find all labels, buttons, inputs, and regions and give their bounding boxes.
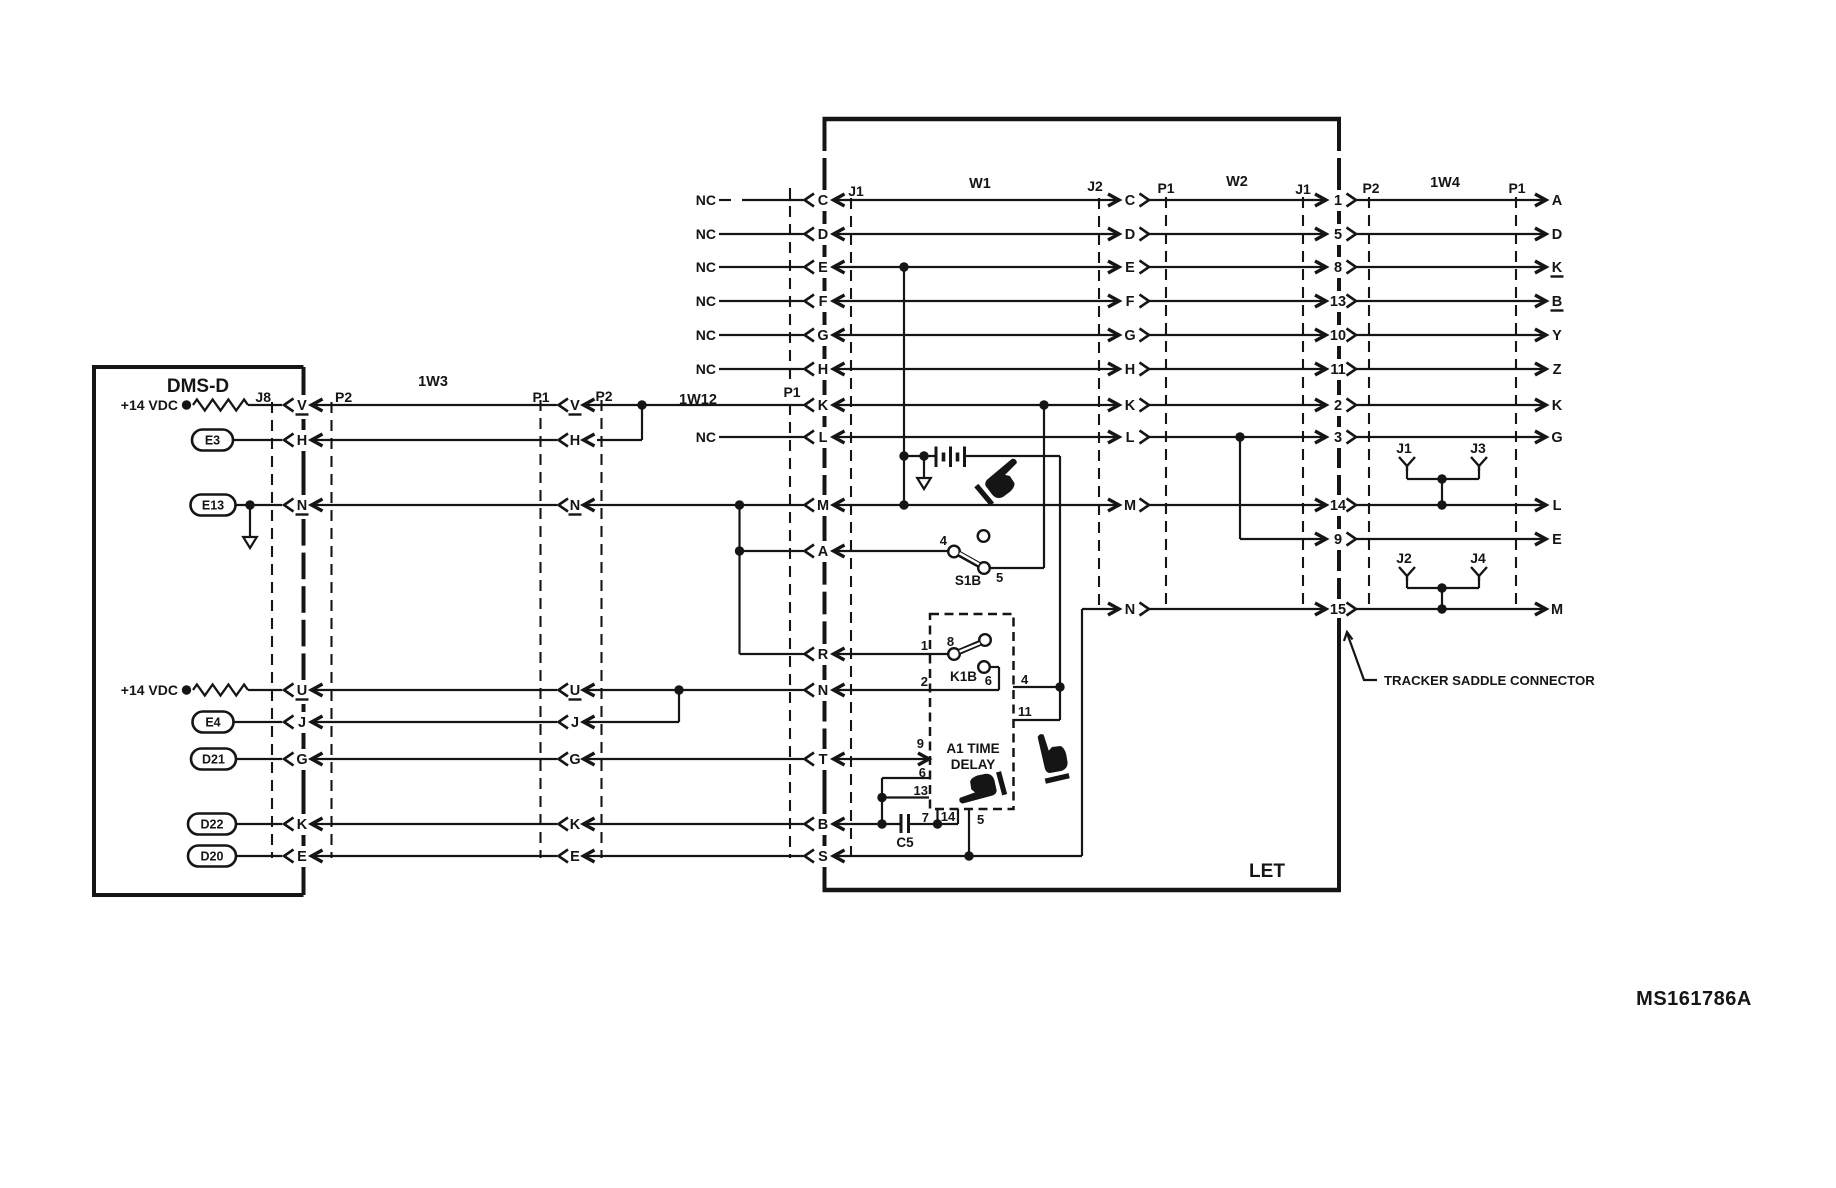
node K (P1/P2 pin)	[559, 817, 595, 833]
svg-text:E: E	[1552, 532, 1562, 548]
node D (1W4 P1 end)	[1552, 227, 1562, 243]
wire pin 11 loop	[1013, 687, 1060, 720]
svg-text:+14 VDC: +14 VDC	[121, 682, 178, 698]
NC stub into LET pin G	[696, 327, 804, 343]
LET unit enclosure box	[823, 119, 1342, 890]
svg-text:M: M	[1124, 498, 1136, 514]
svg-text:13: 13	[1330, 294, 1346, 310]
NC stub into LET pin D	[696, 226, 804, 242]
svg-text:U: U	[570, 683, 580, 699]
terminal E13	[191, 495, 236, 516]
svg-text:+14 VDC: +14 VDC	[121, 397, 178, 413]
terminal D20	[188, 846, 236, 867]
svg-text:W1: W1	[969, 176, 991, 192]
svg-text:8: 8	[1334, 260, 1342, 276]
svg-text:11: 11	[1330, 362, 1345, 378]
svg-text:B: B	[1552, 294, 1562, 310]
wire 1W4 row 10	[1356, 329, 1546, 341]
wire S row to riser	[834, 851, 1083, 860]
node H (J2/P1 pin)	[1125, 362, 1149, 378]
connector P1 dashed line (1W3 right)	[532, 389, 549, 858]
NC stub into LET pin L	[696, 429, 804, 445]
svg-text:J2: J2	[1396, 550, 1412, 566]
svg-text:L: L	[1553, 498, 1562, 514]
wire 1W4 row 5	[1356, 228, 1546, 240]
svg-text:N: N	[297, 498, 307, 514]
wire W1 row C	[834, 194, 1120, 206]
svg-text:E: E	[297, 849, 307, 865]
wire R row to K1B pivot	[834, 653, 949, 655]
node D (LET J1 pin)	[805, 227, 845, 243]
wire 1W3 row H	[312, 439, 558, 441]
antenna J2	[1396, 550, 1415, 581]
svg-text:7: 7	[922, 810, 929, 825]
node E (1W4 P1 end)	[1552, 532, 1562, 548]
svg-text:R: R	[818, 647, 829, 663]
svg-text:D: D	[1552, 227, 1562, 243]
A1 pin 7 lead	[922, 809, 938, 825]
terminal D21	[191, 749, 236, 770]
node H (P1/P2 pin)	[559, 433, 595, 449]
node 13 (J1/P2 tracker saddle pin)	[1330, 294, 1356, 310]
wire row U to LET N pin	[584, 685, 804, 694]
node E (J2/P1 pin)	[1125, 260, 1149, 276]
svg-text:1W4: 1W4	[1430, 175, 1460, 191]
connector P2 dashed line (1W12 left)	[595, 388, 612, 858]
wire A row stub	[740, 550, 804, 552]
wire row G to LET T pin	[584, 758, 804, 760]
node N (J2/P1 pin, row 15)	[1125, 602, 1149, 618]
svg-text:9: 9	[917, 736, 924, 751]
node B (LET J1 pin)	[805, 817, 845, 833]
node 1 (J1/P2 tracker saddle pin)	[1334, 193, 1356, 209]
wire 1W4 row 13	[1356, 295, 1546, 307]
wire E4 to J pin	[234, 721, 283, 723]
node A (LET J1 pin)	[805, 544, 845, 560]
wire 1W4 row 9	[1356, 533, 1546, 545]
A1 pin 14 lead	[941, 809, 958, 824]
node V (DMS J8 pin)	[284, 398, 323, 415]
node 5 (J1/P2 tracker saddle pin)	[1334, 227, 1356, 243]
node K (1W4 P1 end)	[1552, 398, 1563, 414]
junction V/H branch	[637, 400, 646, 409]
wire V pin stub	[248, 404, 282, 406]
node 14 (tracker saddle pin)	[1330, 498, 1356, 514]
node U (P1/P2 pin)	[559, 683, 595, 700]
wire W1 row H	[834, 363, 1120, 375]
svg-text:13: 13	[914, 783, 928, 798]
wire C5 to A1 pins 7/14	[909, 819, 959, 828]
terminal E3	[192, 430, 233, 451]
svg-text:P2: P2	[595, 388, 612, 404]
svg-text:5: 5	[1334, 227, 1342, 243]
svg-text:J2: J2	[1087, 178, 1103, 194]
node E (LET J1 pin)	[805, 260, 845, 276]
K1B pin 6 contact	[978, 661, 999, 690]
wire branch J to U row	[584, 690, 680, 722]
junction L row branch	[1235, 432, 1244, 441]
wire pin 4 stub	[1013, 672, 1060, 687]
svg-text:H: H	[570, 433, 580, 449]
svg-text:H: H	[1125, 362, 1135, 378]
node E (P1/P2 pin)	[559, 849, 595, 865]
node K (1W4 P1 end)	[1551, 260, 1564, 277]
node Y (1W4 P1 end)	[1552, 328, 1562, 344]
svg-text:J8: J8	[255, 389, 271, 405]
connector P2 dashed line (1W4 left)	[1362, 180, 1379, 609]
svg-text:H: H	[297, 433, 307, 449]
node G (DMS J8 pin)	[284, 752, 323, 768]
wire E3 to H pin	[233, 439, 282, 441]
node C (J2/P1 pin)	[1125, 193, 1149, 209]
connector J1 dashed line (LET left)	[848, 183, 864, 858]
svg-text:L: L	[819, 430, 828, 446]
svg-text:4: 4	[1021, 672, 1029, 687]
svg-text:3: 3	[1334, 430, 1342, 446]
wire W1 row E	[834, 261, 1120, 273]
svg-text:5: 5	[996, 570, 1003, 585]
wire W1 row F	[834, 295, 1120, 307]
wire 1W3 row K	[312, 823, 558, 825]
node 3 (J1/P2 tracker saddle pin)	[1334, 430, 1356, 446]
antenna J3	[1470, 440, 1487, 471]
relay contact K1B	[921, 634, 991, 689]
wire D21 to G pin	[236, 758, 282, 760]
ground (battery)	[917, 456, 931, 489]
svg-text:A: A	[1552, 193, 1563, 209]
node 8 (J1/P2 tracker saddle pin)	[1334, 260, 1356, 276]
wire W2 row C	[1149, 194, 1326, 206]
wire 1W4 row 15	[1356, 603, 1546, 615]
svg-text:1: 1	[1334, 193, 1342, 209]
wire J2/J4 tie bar	[1407, 581, 1479, 609]
wire row N to LET M pin	[584, 500, 804, 509]
svg-text:LET: LET	[1249, 861, 1285, 882]
svg-text:J4: J4	[1470, 550, 1486, 566]
svg-text:K1B: K1B	[950, 669, 977, 684]
svg-text:E: E	[570, 849, 580, 865]
wire branch M-A-R	[735, 505, 744, 654]
svg-text:A: A	[818, 544, 829, 560]
wire W2 row D	[1149, 228, 1326, 240]
svg-text:NC: NC	[696, 327, 716, 343]
terminal D22	[188, 814, 236, 835]
svg-text:MS161786A: MS161786A	[1636, 988, 1752, 1010]
NC stub into LET pin F	[696, 293, 804, 309]
svg-text:5: 5	[977, 812, 984, 827]
svg-text:1: 1	[921, 638, 928, 653]
svg-text:D22: D22	[201, 818, 224, 832]
svg-text:B: B	[818, 817, 828, 833]
wire S riser to N row	[1082, 603, 1119, 856]
svg-text:T: T	[819, 752, 828, 768]
wire W2 row H	[1149, 363, 1326, 375]
svg-text:D20: D20	[201, 850, 224, 864]
svg-text:V: V	[570, 398, 580, 414]
node K (LET J1 pin)	[805, 398, 845, 414]
wire 1W3 row N	[312, 504, 558, 506]
A1 pin 13 lead	[882, 783, 929, 798]
svg-text:14: 14	[1330, 498, 1346, 514]
wire W2 row M	[1149, 499, 1326, 511]
svg-text:L: L	[1126, 430, 1135, 446]
node 2 (J1/P2 tracker saddle pin)	[1334, 398, 1356, 414]
+14 VDC supply (U row)	[121, 682, 191, 698]
svg-text:10: 10	[1330, 328, 1346, 344]
svg-text:NC: NC	[696, 361, 716, 377]
wire W1 row G	[834, 329, 1120, 341]
wire 1W4 row 14	[1356, 499, 1546, 511]
svg-text:2: 2	[1334, 398, 1342, 414]
svg-text:K: K	[1552, 398, 1563, 414]
node M (J2/P1 pin)	[1124, 498, 1149, 514]
svg-text:N: N	[818, 683, 828, 699]
svg-text:G: G	[569, 752, 580, 768]
junction pin 4 node	[1055, 682, 1064, 691]
node M (1W4 P1 end)	[1551, 602, 1563, 618]
node J (P1/P2 pin)	[559, 715, 595, 731]
svg-text:6: 6	[985, 673, 992, 688]
svg-text:Z: Z	[1553, 362, 1562, 378]
svg-text:E: E	[818, 260, 828, 276]
antenna J1	[1396, 440, 1415, 471]
node D (J2/P1 pin)	[1125, 227, 1149, 243]
resistor (V row series)	[193, 400, 248, 411]
svg-text:H: H	[818, 362, 828, 378]
node E (DMS J8 pin)	[284, 849, 323, 865]
wire D22 to K pin	[236, 823, 282, 825]
NC stub into LET pin C	[696, 192, 804, 208]
A1 pin 6 lead	[877, 765, 929, 824]
cable W1 label	[969, 176, 991, 192]
node G (LET J1 pin)	[805, 328, 845, 344]
node U (DMS J8 pin)	[284, 683, 323, 700]
svg-text:P1: P1	[1157, 180, 1174, 196]
wire W1 row D	[834, 228, 1120, 240]
wire W1 row K	[834, 399, 1120, 411]
node T (LET J1 pin)	[805, 752, 845, 768]
wire U pin stub	[248, 689, 282, 691]
wire A row to S1B pivot	[834, 550, 949, 552]
node J (DMS J8 pin)	[284, 715, 323, 731]
node N (LET J1 pin)	[805, 683, 845, 699]
svg-text:E13: E13	[202, 499, 224, 513]
node H (DMS J8 pin)	[284, 433, 323, 449]
node G (1W4 P1 end)	[1551, 430, 1562, 446]
cable 1W12 label	[679, 392, 717, 408]
svg-text:C: C	[818, 193, 829, 209]
wire battery to K1B pin 4	[965, 456, 1061, 687]
wire B row to C5	[834, 819, 902, 828]
svg-text:DMS-D: DMS-D	[167, 376, 229, 397]
resistor (U row series)	[193, 685, 248, 696]
svg-text:NC: NC	[696, 192, 716, 208]
svg-text:M: M	[1551, 602, 1563, 618]
svg-text:J1: J1	[848, 183, 864, 199]
hand symbol (A1)	[954, 770, 1004, 807]
svg-text:K: K	[818, 398, 829, 414]
svg-text:F: F	[1126, 294, 1135, 310]
switch S1B	[940, 530, 1003, 588]
wire 1W4 row 3	[1356, 431, 1546, 443]
svg-text:P1: P1	[1508, 180, 1525, 196]
svg-text:P1: P1	[783, 384, 800, 400]
relay K1B / time delay A1 dashed box	[930, 614, 1014, 809]
svg-text:P2: P2	[1362, 180, 1379, 196]
node G (P1/P2 pin)	[559, 752, 595, 768]
cable 1W3 label	[418, 374, 448, 390]
svg-text:G: G	[1551, 430, 1562, 446]
wire row K to LET B pin	[584, 823, 804, 825]
connector J2 dashed line (W1 right)	[1087, 178, 1103, 610]
node K (J2/P1 pin)	[1125, 398, 1149, 414]
node H (LET J1 pin)	[805, 362, 845, 378]
svg-text:NC: NC	[696, 226, 716, 242]
svg-text:K: K	[1552, 260, 1563, 276]
svg-text:TRACKER SADDLE CONNECTOR: TRACKER SADDLE CONNECTOR	[1384, 673, 1595, 688]
node 10 (J1/P2 tracker saddle pin)	[1330, 328, 1356, 344]
capacitor C5	[896, 814, 914, 850]
wire 1W3 row U	[312, 689, 558, 691]
node F (LET J1 pin)	[805, 294, 845, 310]
node N (P1/P2 pin)	[559, 498, 595, 515]
svg-text:G: G	[817, 328, 828, 344]
node V (P1/P2 pin)	[559, 398, 595, 415]
A1 pin 5 lead	[969, 809, 984, 856]
svg-text:J: J	[571, 715, 579, 731]
battery BT	[904, 447, 965, 468]
svg-text:G: G	[1124, 328, 1135, 344]
wire 1W4 row 8	[1356, 261, 1546, 273]
wire W2 row K	[1149, 399, 1326, 411]
svg-text:P2: P2	[335, 389, 352, 405]
cable W2 label	[1226, 174, 1248, 190]
svg-text:11: 11	[1018, 704, 1032, 719]
wire W2 row F	[1149, 295, 1326, 307]
wire W1 row M	[834, 499, 1120, 511]
svg-text:NC: NC	[696, 293, 716, 309]
junction K row / S1B	[1039, 400, 1048, 409]
connector P1 dashed line (1W12 right)	[782, 188, 802, 858]
svg-text:8: 8	[947, 634, 954, 649]
node S (LET J1 pin)	[805, 849, 845, 865]
wire W2 row L	[1149, 431, 1326, 443]
wire W2 row E	[1149, 261, 1326, 273]
wire 1W4 row 11	[1356, 363, 1546, 375]
svg-text:2: 2	[921, 674, 928, 689]
svg-text:D: D	[1125, 227, 1135, 243]
svg-text:V: V	[297, 398, 307, 414]
svg-text:S: S	[818, 849, 828, 865]
svg-text:G: G	[296, 752, 307, 768]
node B (1W4 P1 end)	[1551, 294, 1564, 311]
wire 1W12 row V-K	[584, 404, 804, 406]
svg-text:1W3: 1W3	[418, 374, 448, 390]
wire D20 to E pin	[236, 855, 282, 857]
hand symbol (battery)	[976, 455, 1029, 505]
node L (LET J1 pin)	[805, 430, 845, 446]
svg-text:P1: P1	[532, 389, 549, 405]
terminal E4	[193, 712, 234, 733]
connector P2 dashed line (1W3 left)	[332, 389, 353, 858]
svg-text:14: 14	[941, 809, 956, 824]
svg-text:D: D	[818, 227, 828, 243]
svg-text:M: M	[817, 498, 829, 514]
svg-text:9: 9	[1334, 532, 1342, 548]
connector J8 dashed line	[255, 389, 272, 858]
drawing number MS161786A	[1636, 988, 1752, 1010]
node N (DMS J8 pin)	[284, 498, 323, 515]
wire 1W4 row 1	[1356, 194, 1546, 206]
connector P1 dashed line (1W4 right)	[1508, 180, 1525, 609]
hand symbol (K1B)	[1035, 730, 1071, 782]
wire 1W3 row E	[312, 855, 558, 857]
node R (LET J1 pin)	[805, 647, 845, 663]
svg-text:15: 15	[1330, 602, 1346, 618]
wire S1B contact 5 to K row	[990, 405, 1045, 568]
svg-text:Y: Y	[1552, 328, 1562, 344]
svg-text:K: K	[297, 817, 308, 833]
wire branch L to pin 9	[1240, 437, 1326, 545]
node Z (1W4 P1 end)	[1553, 362, 1562, 378]
svg-text:E3: E3	[205, 434, 220, 448]
svg-text:K: K	[570, 817, 581, 833]
node L (1W4 P1 end)	[1553, 498, 1562, 514]
tracker saddle connector callout	[1344, 632, 1595, 688]
svg-text:W2: W2	[1226, 174, 1248, 190]
ground (E13)	[243, 505, 257, 548]
wire branch V to H pin	[597, 405, 642, 440]
wire 1W3 row G	[312, 758, 558, 760]
wire 1W4 row 2	[1356, 399, 1546, 411]
A1 pin 9 label	[917, 736, 924, 751]
wire R row stub	[740, 653, 804, 655]
connector J1 dashed line (W2 right)	[1295, 181, 1311, 610]
wire J1/J3 tie bar	[1407, 471, 1479, 505]
node A (1W4 P1 end)	[1552, 193, 1563, 209]
svg-text:D21: D21	[202, 753, 225, 767]
svg-text:C: C	[1125, 193, 1136, 209]
wire E row branch to battery/M	[899, 262, 908, 505]
svg-text:C5: C5	[896, 835, 914, 850]
svg-text:J1: J1	[1295, 181, 1311, 197]
svg-text:J1: J1	[1396, 440, 1412, 456]
svg-text:S1B: S1B	[955, 573, 982, 588]
NC stub into LET pin H	[696, 361, 804, 377]
wire row E to LET S pin	[584, 855, 804, 857]
node 15 (tracker saddle pin)	[1330, 602, 1356, 618]
svg-text:NC: NC	[696, 429, 716, 445]
svg-text:E: E	[1125, 260, 1135, 276]
svg-text:K: K	[1125, 398, 1136, 414]
node L (J2/P1 pin)	[1126, 430, 1149, 446]
antenna J4	[1470, 550, 1487, 581]
time delay A1 label	[946, 741, 999, 772]
DMS-D unit enclosure box	[94, 365, 304, 897]
svg-text:4: 4	[940, 533, 948, 548]
svg-text:DELAY: DELAY	[951, 757, 996, 772]
cable 1W4 label	[1430, 175, 1460, 191]
node 11 (J1/P2 tracker saddle pin)	[1330, 362, 1356, 378]
node M (LET J1 pin)	[805, 498, 845, 514]
wire W1 row L	[834, 431, 1120, 443]
svg-text:E4: E4	[205, 716, 220, 730]
svg-text:A1 TIME: A1 TIME	[946, 741, 999, 756]
svg-text:J: J	[298, 715, 306, 731]
wire N row to K1B pin 2	[834, 689, 1000, 691]
svg-text:U: U	[297, 683, 307, 699]
node K (DMS J8 pin)	[284, 817, 323, 833]
